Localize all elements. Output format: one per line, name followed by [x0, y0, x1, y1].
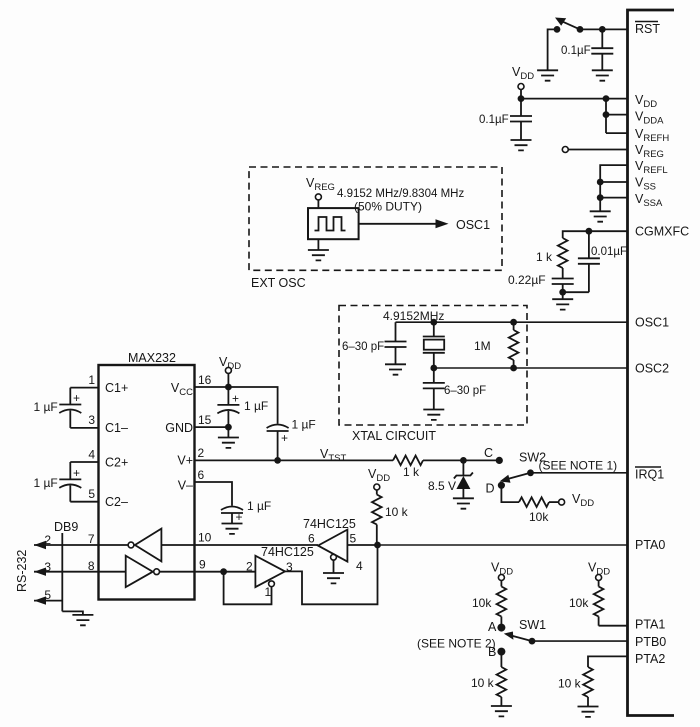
resistor 1M (OSC feedback): [509, 322, 519, 368]
pin 16 wire VCC: [195, 386, 229, 388]
terminal VREG open circle: [562, 147, 568, 153]
wire GND node to ground: [227, 427, 229, 437]
SECTION: VREG pin: [562, 147, 627, 153]
junction VDD cap: [518, 95, 525, 102]
inverter T1 (right pointing, pin8 to pin9): [99, 556, 195, 587]
ground (node B): [491, 706, 512, 716]
SECTION: PTA0 pull-up: [368, 467, 409, 545]
junction V+ node: [274, 457, 281, 464]
pin 6 wire V-: [195, 482, 233, 506]
wire OSC1: [396, 321, 628, 323]
junction 1M top: [510, 319, 517, 326]
svg-text:B: B: [488, 645, 496, 659]
SECTION: MAX232: [34, 351, 394, 600]
node D: [498, 482, 505, 489]
junction VSSA: [597, 194, 604, 201]
junction GND node: [225, 424, 232, 431]
SECTION: VDD supply rail: [479, 65, 628, 150]
ground (VDD cap): [511, 140, 532, 150]
svg-text:10k: 10k: [529, 510, 549, 524]
junction VCC node: [225, 384, 232, 391]
arrowhead DB9 pin3: [34, 568, 46, 576]
svg-text:2: 2: [44, 533, 51, 547]
svg-text:C: C: [484, 446, 493, 460]
svg-text:MAX232: MAX232: [128, 351, 176, 365]
terminal VDD open circle (PTA0): [374, 484, 380, 490]
svg-text:8.5 V: 8.5 V: [428, 479, 456, 493]
wire node D down: [501, 485, 519, 502]
pin RST label: [635, 22, 660, 37]
ground (VSS): [590, 211, 611, 221]
svg-text:5: 5: [350, 532, 357, 546]
junction CGMXFC cap branch: [586, 228, 593, 235]
DB9 connector line: [61, 533, 63, 611]
inverter T2 (left pointing, pin10 to pin7): [99, 529, 195, 562]
wire VREFL pin: [600, 165, 627, 211]
wire U3 enable to ground: [333, 560, 335, 573]
square wave glyph: [315, 217, 346, 231]
wire oscillator output: [359, 223, 438, 225]
svg-text:1 k: 1 k: [403, 465, 420, 479]
SECTION: CGMXFC filter: [508, 228, 628, 310]
wire VDD terminal down to rail: [520, 90, 522, 99]
svg-text:0.1µF: 0.1µF: [561, 45, 591, 57]
capacitor 0.1uF (RST): [591, 29, 613, 70]
wire 10k to VDD terminal: [549, 501, 559, 503]
svg-text:C2–: C2–: [105, 495, 128, 509]
junction crystal top: [430, 319, 437, 326]
junction 1M bottom: [510, 365, 517, 372]
svg-text:RS-232: RS-232: [15, 550, 29, 592]
svg-text:1 µF: 1 µF: [34, 400, 58, 414]
svg-text:1 k: 1 k: [536, 250, 553, 264]
wire 1k to 0.22uF: [562, 268, 564, 279]
resistor 10k (IRQ1 pull-up): [519, 497, 549, 507]
SECTION: EXT OSC dashed box: [249, 167, 502, 290]
svg-text:0.01µF: 0.01µF: [591, 246, 627, 258]
wire DB9 pin2 to MAX232 pin7: [34, 544, 99, 546]
svg-text:10k: 10k: [569, 596, 589, 610]
node C: [496, 457, 503, 464]
svg-text:SW1: SW1: [519, 618, 546, 632]
svg-text:3: 3: [44, 560, 51, 574]
wire DB9 pin5: [34, 600, 62, 602]
svg-text:4: 4: [88, 448, 95, 462]
svg-text:PTA0: PTA0: [635, 538, 665, 552]
svg-text:+: +: [232, 392, 239, 406]
svg-text:3: 3: [88, 413, 95, 427]
wire VREG to oscillator box: [317, 200, 319, 208]
svg-text:10: 10: [198, 531, 212, 545]
svg-text:(50% DUTY): (50% DUTY): [354, 200, 422, 214]
capacitor 0.01uF (CGMXFC): [578, 231, 600, 292]
wire 0.22uF to ground node: [562, 284, 564, 299]
svg-text:A: A: [488, 620, 497, 634]
svg-text:D: D: [486, 482, 495, 496]
node A: [497, 624, 505, 632]
wire VCC rail to cap4 branch: [228, 387, 277, 424]
ground (reset switch): [537, 70, 558, 80]
ground (OSC2 cap): [423, 410, 444, 420]
SECTION: XTAL circuit: [339, 306, 628, 444]
svg-text:(SEE NOTE 1): (SEE NOTE 1): [539, 459, 618, 473]
pin 9 wire: [195, 571, 256, 573]
resistor 1k (CGMXFC): [558, 238, 568, 268]
SECTION: 74HC125 buffers: [220, 517, 627, 604]
terminal VDD open circle (MAX232): [225, 367, 231, 373]
wire DB9 shield to ground: [62, 611, 83, 615]
svg-text:PTA2: PTA2: [635, 652, 665, 666]
svg-text:DB9: DB9: [54, 520, 78, 534]
wire OSC2: [434, 367, 628, 369]
svg-text:1 µF: 1 µF: [244, 399, 268, 413]
terminal VDD open circle (PTA1): [596, 575, 602, 581]
wire PTA1 pin: [599, 625, 628, 627]
SECTION: VREFL VSS VSSA ground: [590, 165, 628, 222]
ground (OSC1 cap): [385, 364, 406, 374]
capacitor C2 1uF: [59, 462, 81, 502]
wire VDD to VCC rail: [227, 373, 229, 387]
svg-text:16: 16: [198, 373, 212, 387]
wire VDD branch down: [605, 99, 607, 134]
ground (U3 enable): [323, 573, 344, 583]
resistor 10k (node A pull-up): [497, 581, 507, 628]
ground (ext osc): [308, 250, 329, 260]
MCU U1 (microcontroller, partial box at right): [628, 10, 675, 716]
capacitor C5 1uF (V- filter): [221, 507, 243, 524]
resistor 10k (PTA1 pull-up): [594, 581, 604, 626]
svg-text:6–30 pF: 6–30 pF: [444, 385, 486, 397]
svg-text:OSC1: OSC1: [456, 218, 490, 232]
wire DB9 pin3 to MAX232 pin8: [34, 571, 99, 573]
ground (MAX232 GND): [218, 438, 239, 448]
pin 1 wire C1+: [70, 387, 98, 389]
junction PTA0 node: [374, 542, 381, 549]
svg-text:6: 6: [308, 532, 315, 546]
svg-text:6: 6: [198, 468, 205, 482]
svg-text:1M: 1M: [474, 339, 491, 353]
wire CGMXFC pin: [563, 231, 628, 238]
switch SW2: [500, 469, 534, 482]
svg-text:XTAL CIRCUIT: XTAL CIRCUIT: [352, 429, 436, 443]
pin IRQ1 label: [635, 467, 664, 482]
wire U2 output to PTA0 node: [285, 545, 378, 604]
svg-text:7: 7: [88, 532, 95, 546]
wire switch left pole down: [548, 29, 557, 70]
svg-text:1: 1: [265, 585, 272, 599]
svg-text:6–30 pF: 6–30 pF: [342, 341, 384, 353]
pin 3 wire C1-: [70, 427, 98, 429]
terminal VREG open circle (ext osc): [315, 194, 321, 200]
box XTAL (dashed): [339, 306, 527, 426]
ground (V- cap): [222, 524, 243, 534]
SECTION: MCU pin labels: [635, 22, 689, 667]
resistor 10k (PTA0 pull-up): [372, 490, 382, 545]
junction VSS: [597, 179, 604, 186]
svg-text:15: 15: [198, 413, 212, 427]
wire oscillator box to ground: [317, 239, 319, 250]
ground (RST cap): [592, 70, 613, 80]
svg-text:+: +: [73, 466, 80, 480]
junction CGMXFC ground node: [559, 289, 566, 296]
junction crystal bottom: [430, 365, 437, 372]
switch SW1: [504, 632, 536, 645]
svg-text:2: 2: [246, 560, 253, 574]
arrowhead DB9 pin5: [34, 596, 46, 604]
svg-text:+: +: [236, 510, 243, 524]
wire VDDA pin: [606, 114, 628, 116]
wire PTA2 pin: [588, 656, 628, 667]
svg-text:IRQ1: IRQ1: [635, 468, 664, 482]
terminal VDD open circle (node A): [498, 575, 504, 581]
resistor 1k (VTST): [393, 456, 423, 466]
SECTION: SW1 and PTB0: [417, 561, 628, 717]
capacitor 6-30pF (OSC1 side): [385, 322, 407, 364]
svg-text:10k: 10k: [472, 596, 492, 610]
svg-text:5: 5: [44, 588, 51, 602]
svg-text:9: 9: [199, 558, 206, 572]
svg-text:PTB0: PTB0: [635, 635, 666, 649]
ground (DB9): [72, 615, 93, 625]
junction pin9 feedback: [220, 568, 227, 575]
svg-text:+: +: [281, 431, 288, 445]
svg-text:V+: V+: [177, 454, 193, 468]
ground (CGMXFC): [552, 299, 573, 309]
svg-text:RST: RST: [635, 22, 660, 36]
ground (zener): [453, 498, 474, 508]
wire PTA0 node to MCU PTA0 pin: [378, 544, 628, 546]
capacitor 6-30pF (OSC2 side): [423, 368, 445, 410]
oscillator module box: [308, 208, 359, 239]
node B: [497, 648, 505, 656]
svg-text:4.9152 MHz/9.8304 MHz: 4.9152 MHz/9.8304 MHz: [337, 188, 464, 200]
svg-text:C1–: C1–: [105, 421, 128, 435]
wire VSSA pin: [600, 197, 627, 199]
svg-text:OSC1: OSC1: [635, 316, 669, 330]
wire VSS pin: [600, 181, 627, 183]
IC MAX232 box: [99, 365, 195, 600]
pin 15 wire GND: [195, 426, 229, 428]
svg-text:74HC125: 74HC125: [261, 545, 314, 559]
svg-text:(SEE NOTE 2): (SEE NOTE 2): [417, 637, 496, 651]
svg-text:CGMXFC: CGMXFC: [635, 225, 689, 239]
resistor 10k (PTA2 pull-down): [583, 667, 593, 707]
junction RST node: [599, 26, 606, 33]
resistor 10k (node B pull-down): [497, 652, 507, 706]
capacitor 0.1uF (VDD decoupling): [510, 99, 532, 140]
svg-text:0.22µF: 0.22µF: [508, 273, 546, 287]
svg-text:EXT OSC: EXT OSC: [251, 276, 306, 290]
buffer U2 74HC125 (right pointing): [255, 556, 285, 587]
wire VREFH pin: [606, 132, 628, 134]
svg-text:GND: GND: [165, 421, 193, 435]
pin 5 wire C2-: [70, 501, 98, 503]
junction VDD branch: [603, 95, 610, 102]
capacitor 0.22uF (CGMXFC): [552, 279, 574, 285]
wire U2 enable feedback: [224, 572, 272, 605]
svg-text:1 µF: 1 µF: [292, 418, 316, 432]
SECTION: PTA1 and PTA2: [558, 561, 628, 717]
pin 4 wire C2+: [70, 461, 98, 463]
svg-text:C2+: C2+: [105, 456, 128, 470]
SECTION: VTST zener and SW2: [393, 446, 628, 524]
terminal VDD open circle (IRQ1): [559, 499, 565, 505]
crystal X1 4.9152MHz: [423, 322, 445, 368]
svg-text:C1+: C1+: [105, 381, 128, 395]
wire 1k to node C: [423, 459, 499, 461]
SECTION: DB9 / RS-232: [15, 520, 99, 625]
wire SW2 common to IRQ1: [531, 472, 628, 474]
arrowhead DB9 pin2: [34, 541, 46, 549]
pin 2 wire V+ / VTST: [195, 459, 394, 461]
wire ground node horizontal: [563, 291, 589, 293]
box EXT OSC (dashed): [249, 167, 502, 270]
svg-text:10 k: 10 k: [471, 676, 495, 690]
junction zener top: [460, 457, 467, 464]
wire SW1 common to PTB0: [532, 640, 628, 642]
wire VDD rail to MCU VDD pin: [521, 98, 628, 100]
arrowhead to OSC1: [436, 219, 449, 228]
terminal VDD open circle: [518, 84, 524, 90]
svg-text:4: 4: [356, 559, 363, 573]
capacitor C1 1uF: [59, 388, 81, 428]
svg-text:10 k: 10 k: [558, 677, 582, 691]
capacitor C3 1uF (VCC decoupling): [217, 387, 239, 427]
svg-text:2: 2: [198, 446, 205, 460]
svg-text:V–: V–: [178, 479, 193, 493]
buffer U3 74HC125 (left pointing): [318, 530, 347, 562]
svg-text:OSC2: OSC2: [635, 362, 669, 376]
svg-text:PTA1: PTA1: [635, 618, 665, 632]
svg-text:1 µF: 1 µF: [34, 476, 58, 490]
zener diode 8.5V: [454, 460, 473, 498]
switch S-RST (reset pushbutton): [554, 18, 584, 33]
capacitor C4 1uF (V+ charge pump): [267, 425, 289, 461]
svg-text:5: 5: [88, 487, 95, 501]
svg-text:1: 1: [88, 373, 95, 387]
svg-text:10 k: 10 k: [385, 505, 409, 519]
wire VREG pin: [568, 149, 627, 151]
wire RST pin to junction: [580, 28, 628, 30]
junction VDDA: [603, 111, 610, 118]
ground (PTA2): [578, 707, 599, 717]
svg-text:1 µF: 1 µF: [247, 499, 271, 513]
SECTION: RST reset circuit: [537, 18, 627, 81]
svg-text:0.1µF: 0.1µF: [479, 114, 509, 126]
pin 10 wire: [195, 544, 319, 546]
svg-text:+: +: [73, 391, 80, 405]
wire U3 input to PTA0 node: [347, 544, 377, 546]
svg-text:8: 8: [88, 559, 95, 573]
